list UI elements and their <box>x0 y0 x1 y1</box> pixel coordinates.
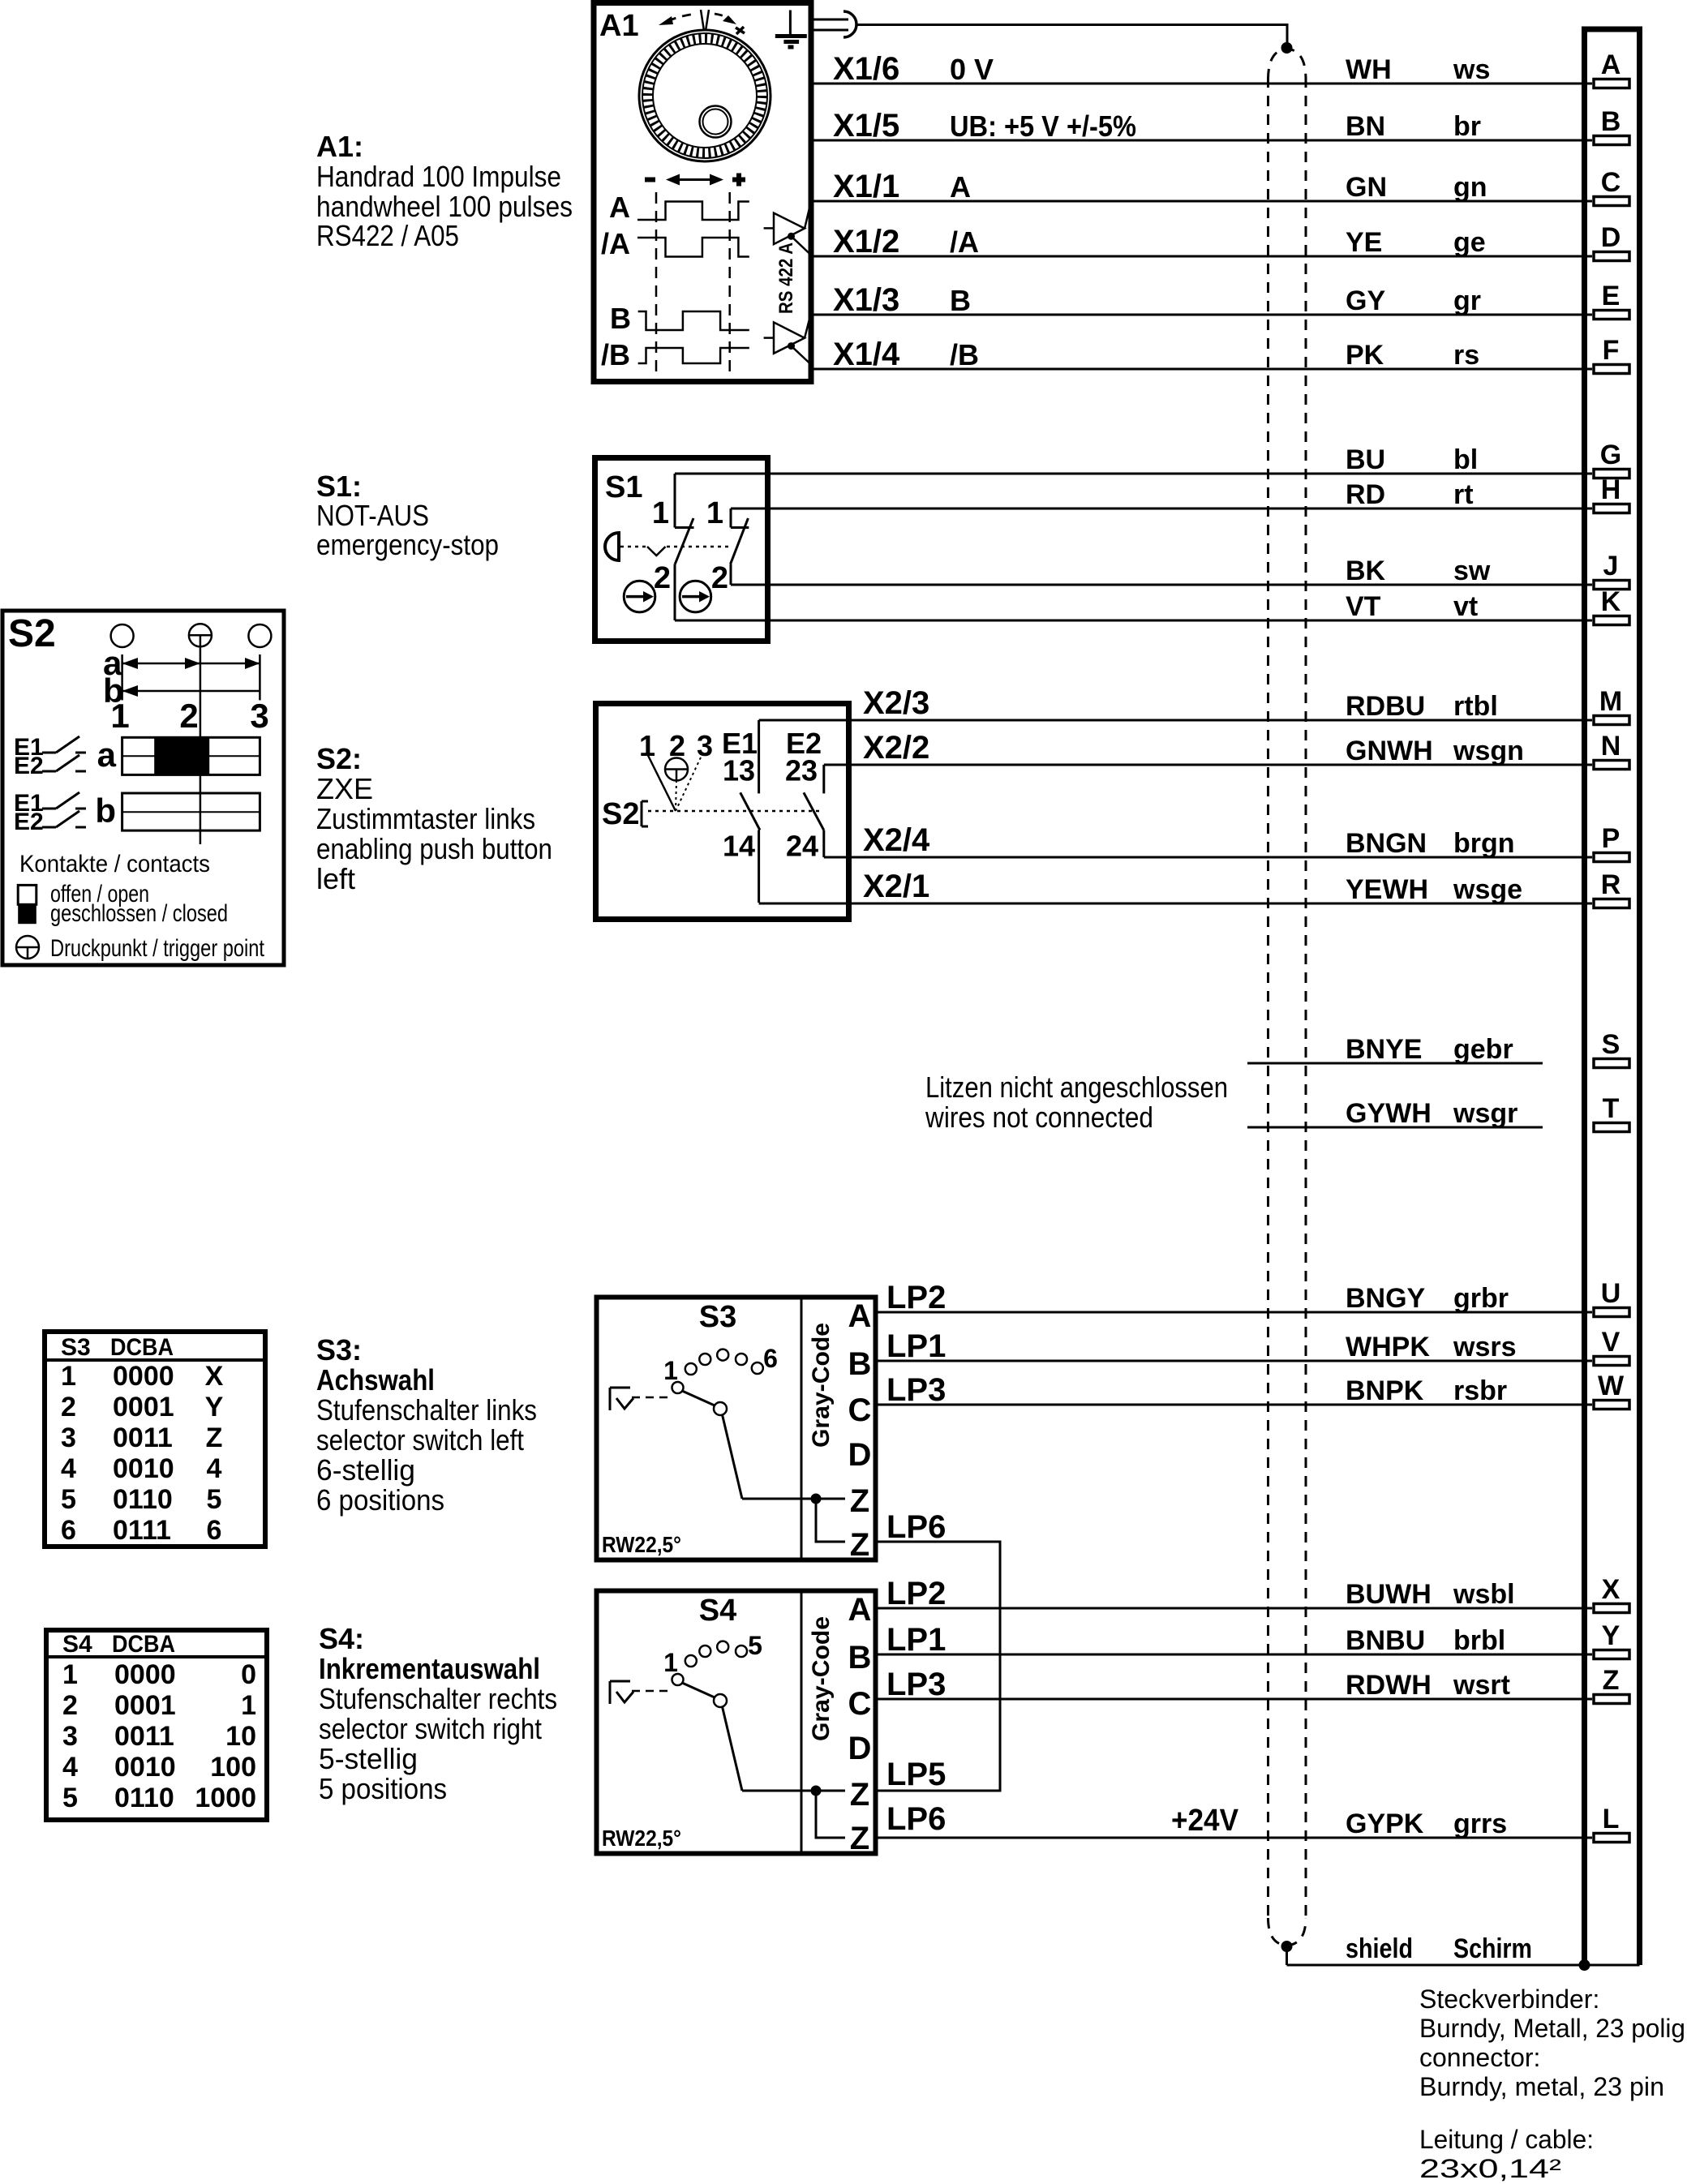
svg-text:Gray-Code: Gray-Code <box>808 1616 835 1741</box>
svg-text:Burndy, Metall, 23 polig: Burndy, Metall, 23 polig <box>1419 2014 1685 2043</box>
wire S1 to pin J (BK) <box>731 556 1592 586</box>
S3 Z common wire <box>742 1498 845 1500</box>
wire S1 to pin K (VT) <box>675 591 1592 622</box>
svg-text:RD: RD <box>1346 479 1385 510</box>
svg-text:left: left <box>316 862 355 895</box>
S4 position circles <box>672 1641 748 1685</box>
S1 description <box>316 470 499 561</box>
svg-text:1: 1 <box>663 1356 678 1385</box>
connector pin C <box>1594 167 1629 206</box>
connector pin K <box>1594 586 1629 625</box>
svg-text:1: 1 <box>61 1361 76 1392</box>
svg-text:L: L <box>1603 1804 1620 1834</box>
svg-text:J: J <box>1603 551 1619 581</box>
svg-text:/A: /A <box>601 227 630 260</box>
svg-text:grbr: grbr <box>1453 1283 1509 1314</box>
svg-text:BN: BN <box>1346 111 1385 142</box>
svg-text:T: T <box>1603 1093 1620 1124</box>
svg-text:rsbr: rsbr <box>1453 1375 1507 1406</box>
svg-text:S4: S4 <box>699 1594 736 1628</box>
svg-text:14: 14 <box>723 830 755 863</box>
wire S4 LP2 to pin X (BUWH) <box>878 1576 1592 1611</box>
connector pin T <box>1594 1093 1629 1132</box>
svg-text:Inkrementauswahl: Inkrementauswahl <box>319 1652 540 1685</box>
svg-text:ws: ws <box>1453 54 1490 85</box>
svg-text:1: 1 <box>652 496 669 530</box>
svg-text:C: C <box>848 1392 872 1428</box>
svg-text:Z: Z <box>850 1821 869 1856</box>
rotation direction arrows <box>659 14 745 34</box>
svg-text:S: S <box>1602 1029 1620 1060</box>
wire S1 to pin H (RD) <box>731 479 1592 510</box>
connector pin B <box>1594 106 1629 145</box>
connector pin L <box>1594 1804 1629 1843</box>
svg-text:G: G <box>1600 440 1621 470</box>
S2 trigger point symbol <box>665 758 688 781</box>
svg-text:6: 6 <box>207 1515 222 1546</box>
connector note <box>1419 1984 1685 2101</box>
svg-text:DCBA: DCBA <box>110 1334 174 1361</box>
unconnected wire T (GYWH) <box>1247 1098 1543 1129</box>
svg-text:selector switch right: selector switch right <box>319 1712 542 1745</box>
selector switch S4 box <box>597 1591 876 1854</box>
wire X1 X1/6 to pin A (WH) <box>813 51 1592 87</box>
shield wire to connector shell <box>1287 1933 1640 1965</box>
S4 rotor <box>682 1683 742 1791</box>
svg-text:LP3: LP3 <box>886 1667 946 1702</box>
svg-text:3: 3 <box>62 1721 78 1752</box>
S3 rotor <box>682 1391 742 1499</box>
svg-text:Leitung / cable:: Leitung / cable: <box>1419 2125 1594 2154</box>
svg-text:0011: 0011 <box>114 1721 174 1752</box>
handwheel pointer <box>701 10 709 31</box>
connector pin M <box>1594 686 1629 725</box>
svg-text:enabling push button: enabling push button <box>316 832 552 865</box>
svg-text:4: 4 <box>61 1453 76 1484</box>
wire S3 LP2 to pin U (BNGY) <box>878 1280 1592 1315</box>
svg-text:sw: sw <box>1453 556 1491 586</box>
svg-text:Achswahl: Achswahl <box>316 1363 435 1397</box>
svg-text:PK: PK <box>1346 340 1384 371</box>
svg-text:YE: YE <box>1346 227 1382 258</box>
connector pin S <box>1594 1029 1629 1068</box>
svg-text:+24V: +24V <box>1171 1804 1239 1838</box>
S4 terminal letters <box>848 1592 872 1856</box>
wire S2 X2/3 to pin M (RDBU) <box>759 685 1592 722</box>
svg-text:wsgn: wsgn <box>1453 736 1524 766</box>
svg-text:rs: rs <box>1453 340 1479 371</box>
svg-text:D: D <box>1601 222 1621 253</box>
waveform B trace <box>638 311 749 330</box>
svg-text:H: H <box>1601 474 1621 505</box>
S4 description <box>319 1622 557 1805</box>
legend E1/E2 contact symbols row a <box>14 734 86 779</box>
svg-text:wsgr: wsgr <box>1453 1098 1517 1129</box>
svg-text:GNWH: GNWH <box>1346 736 1433 766</box>
svg-text:brbl: brbl <box>1453 1625 1505 1656</box>
svg-text:Z: Z <box>850 1777 869 1813</box>
wire S1 to pin G (BU) <box>675 444 1592 475</box>
svg-text:0000: 0000 <box>114 1659 176 1690</box>
svg-text:0010: 0010 <box>113 1453 174 1484</box>
connector pin Z <box>1594 1665 1629 1704</box>
connector pin E <box>1594 281 1629 320</box>
svg-text:X1/1: X1/1 <box>833 169 899 204</box>
svg-text:D: D <box>848 1731 872 1766</box>
svg-text:A1:: A1: <box>316 130 363 163</box>
cable shield termination symbol <box>813 11 856 37</box>
handwheel dial <box>639 30 771 161</box>
cable screen dashed boundary <box>1268 49 1307 1946</box>
svg-text:rtbl: rtbl <box>1453 691 1498 722</box>
svg-text:D: D <box>848 1437 872 1473</box>
svg-text:RS422 / A05: RS422 / A05 <box>316 219 459 252</box>
svg-text:GN: GN <box>1346 172 1387 203</box>
svg-text:0110: 0110 <box>113 1484 173 1515</box>
svg-text:LP5: LP5 <box>886 1757 946 1792</box>
svg-text:0001: 0001 <box>114 1690 176 1721</box>
handwheel module A1 box <box>594 3 811 382</box>
connector pin U <box>1594 1278 1629 1317</box>
svg-text:DCBA: DCBA <box>112 1631 175 1658</box>
svg-text:3: 3 <box>61 1422 76 1453</box>
svg-text:BNGY: BNGY <box>1346 1283 1426 1314</box>
svg-text:5: 5 <box>62 1783 78 1813</box>
S3 Z2 branch <box>816 1499 845 1542</box>
svg-text:Z: Z <box>206 1422 223 1453</box>
svg-text:LP3: LP3 <box>886 1372 946 1408</box>
svg-text:RDWH: RDWH <box>1346 1670 1432 1701</box>
svg-text:1: 1 <box>639 729 655 762</box>
legend trigger point symbol <box>16 936 39 959</box>
S2 position pointer lines <box>639 729 713 811</box>
wires-not-connected note <box>925 1071 1228 1134</box>
svg-text:BNGN: BNGN <box>1346 828 1427 859</box>
svg-text:Z: Z <box>850 1483 869 1519</box>
svg-text:geschlossen / closed: geschlossen / closed <box>50 900 228 927</box>
RS422 driver U1a <box>764 201 811 255</box>
svg-text:A: A <box>950 170 971 204</box>
svg-text:connector:: connector: <box>1419 2043 1540 2072</box>
svg-text:23x0,14²: 23x0,14² <box>1419 2154 1561 2183</box>
legend open square <box>18 885 36 904</box>
legend E1/E2 contact symbols row b <box>14 790 86 835</box>
svg-text:Druckpunkt / trigger point: Druckpunkt / trigger point <box>50 935 265 962</box>
S1 plunger symbol left <box>624 581 655 612</box>
S1 mushroom actuator <box>605 533 619 560</box>
connector pin H <box>1594 474 1629 513</box>
svg-text:1: 1 <box>110 697 129 735</box>
svg-text:bl: bl <box>1453 444 1478 475</box>
svg-text:10: 10 <box>225 1721 256 1752</box>
connector Burndy 23-pin body <box>1582 27 1642 1965</box>
svg-text:brgn: brgn <box>1453 828 1515 859</box>
wire S3 LP3 to pin W (BNPK) <box>878 1372 1592 1408</box>
svg-text:S3:: S3: <box>316 1333 362 1367</box>
RS422 driver U1b <box>764 313 811 365</box>
svg-text:S2:: S2: <box>316 742 362 775</box>
svg-text:X1/3: X1/3 <box>833 282 899 318</box>
svg-text:X1/2: X1/2 <box>833 224 899 260</box>
svg-text:U: U <box>1601 1278 1621 1309</box>
svg-text:S3: S3 <box>699 1300 736 1334</box>
svg-text:YEWH: YEWH <box>1346 874 1428 905</box>
svg-text:b: b <box>95 792 116 830</box>
handwheel knob <box>700 106 732 138</box>
svg-text:shield: shield <box>1346 1933 1413 1964</box>
A1 description <box>316 130 573 252</box>
svg-text:emergency-stop: emergency-stop <box>316 528 499 561</box>
connector pin A <box>1594 49 1629 88</box>
unconnected wire S (BNYE) <box>1247 1034 1543 1065</box>
S4 actuator symbol <box>610 1681 672 1704</box>
svg-text:B: B <box>1601 106 1621 137</box>
svg-text:A: A <box>609 191 630 224</box>
svg-text:A1: A1 <box>599 9 639 43</box>
wire S4 LP6 (+24V) to pin L <box>878 1801 1592 1839</box>
svg-text:WHPK: WHPK <box>1346 1332 1430 1362</box>
svg-text:wsbl: wsbl <box>1453 1579 1515 1610</box>
S4 Z2 branch <box>816 1791 845 1838</box>
svg-text:S4: S4 <box>62 1631 92 1658</box>
svg-text:1: 1 <box>706 496 723 530</box>
svg-text:1000: 1000 <box>195 1783 256 1813</box>
connector pin W <box>1594 1371 1629 1410</box>
svg-text:gr: gr <box>1453 285 1481 316</box>
svg-text:0001: 0001 <box>113 1392 174 1422</box>
waveform /B trace <box>638 348 749 363</box>
svg-text:1: 1 <box>663 1648 678 1677</box>
svg-text:handwheel 100 pulses: handwheel 100 pulses <box>316 190 573 223</box>
svg-text:RW22,5°: RW22,5° <box>602 1532 681 1557</box>
legend travel diagram <box>103 644 269 844</box>
svg-text:Schirm: Schirm <box>1453 1933 1532 1964</box>
svg-text:LP6: LP6 <box>886 1801 946 1837</box>
svg-text:S1:: S1: <box>316 470 362 503</box>
svg-text:RDBU: RDBU <box>1346 691 1425 722</box>
svg-text:/B: /B <box>601 338 630 371</box>
svg-text:0 V: 0 V <box>950 53 994 86</box>
svg-text:LP1: LP1 <box>886 1328 946 1364</box>
svg-text:1: 1 <box>241 1690 256 1721</box>
svg-text:S2: S2 <box>8 612 56 655</box>
svg-text:LP2: LP2 <box>886 1576 946 1611</box>
legend button positions <box>111 624 272 647</box>
svg-text:5-stellig: 5-stellig <box>319 1742 418 1775</box>
svg-text:M: M <box>1599 686 1622 717</box>
S1 contact 1-2 left (NC) <box>652 474 694 620</box>
legend closed square <box>18 904 36 924</box>
S3 Z junction <box>811 1494 821 1504</box>
svg-text:wsrt: wsrt <box>1453 1670 1510 1701</box>
svg-text:E2: E2 <box>14 809 44 835</box>
svg-text:LP2: LP2 <box>886 1280 946 1315</box>
svg-text:X1/5: X1/5 <box>833 108 899 144</box>
svg-text:gn: gn <box>1453 172 1487 203</box>
legend contact table b <box>95 792 260 830</box>
svg-text:a: a <box>97 736 117 774</box>
S4 gray-code column divider <box>801 1591 803 1854</box>
svg-text:X2/4: X2/4 <box>863 822 930 858</box>
svg-text:Burndy, metal, 23 pin: Burndy, metal, 23 pin <box>1419 2072 1664 2101</box>
S3 gray-code column divider <box>801 1298 803 1560</box>
svg-text:BU: BU <box>1346 444 1385 475</box>
svg-text:4: 4 <box>207 1453 222 1484</box>
svg-text:W: W <box>1598 1371 1625 1401</box>
svg-text:2: 2 <box>654 561 671 595</box>
connector pin P <box>1594 823 1629 862</box>
wire S4 LP3 to pin Z (RDWH) <box>878 1667 1592 1702</box>
connector pin Y <box>1594 1620 1629 1659</box>
chassis ground symbol <box>775 11 807 48</box>
svg-text:Y: Y <box>1602 1620 1620 1651</box>
svg-text:BUWH: BUWH <box>1346 1579 1432 1610</box>
svg-text:Steckverbinder:: Steckverbinder: <box>1419 1984 1599 2014</box>
svg-text:RS 422 A: RS 422 A <box>775 242 797 314</box>
svg-text:5: 5 <box>61 1484 76 1515</box>
svg-text:N: N <box>1601 731 1621 762</box>
svg-text:A: A <box>848 1298 872 1334</box>
legend contact table a <box>97 736 260 774</box>
svg-text:Zustimmtaster links: Zustimmtaster links <box>316 802 535 835</box>
wire X1 X1/2 to pin D (YE) <box>813 224 1592 260</box>
svg-text:GY: GY <box>1346 285 1385 316</box>
svg-text:0011: 0011 <box>113 1422 173 1453</box>
svg-text:13: 13 <box>723 754 755 787</box>
svg-text:6-stellig: 6-stellig <box>316 1453 415 1487</box>
svg-text:Stufenschalter rechts: Stufenschalter rechts <box>319 1682 557 1715</box>
svg-text:E2: E2 <box>14 753 44 779</box>
S2 actuator label <box>602 797 648 831</box>
svg-text:3: 3 <box>697 729 713 762</box>
S1 actuator linkage (dotted) <box>620 547 728 556</box>
svg-text:X1/4: X1/4 <box>833 337 900 372</box>
S4 Z junction <box>811 1786 821 1796</box>
svg-text:selector switch left: selector switch left <box>316 1423 524 1457</box>
svg-text:gebr: gebr <box>1453 1034 1513 1065</box>
emergency stop S1 box <box>595 458 768 641</box>
svg-text:4: 4 <box>62 1752 78 1783</box>
S2 description <box>316 742 552 895</box>
svg-text:2: 2 <box>62 1690 78 1721</box>
svg-text:S2: S2 <box>602 797 639 831</box>
svg-text:RW22,5°: RW22,5° <box>602 1826 681 1851</box>
wire X1 X1/1 to pin C (GN) <box>813 169 1592 204</box>
svg-text:/A: /A <box>950 225 979 259</box>
svg-text:100: 100 <box>210 1752 256 1783</box>
wire from shield to cable screen <box>857 25 1287 47</box>
svg-text:P: P <box>1602 823 1620 854</box>
svg-text:B: B <box>848 1346 872 1382</box>
waveform dashed cursor lines <box>656 192 730 374</box>
svg-text:GYPK: GYPK <box>1346 1809 1424 1839</box>
svg-text:A: A <box>1601 49 1621 80</box>
S2 actuator dotted link <box>648 810 822 813</box>
svg-text:0111: 0111 <box>113 1515 171 1546</box>
svg-text:5: 5 <box>748 1631 762 1660</box>
svg-text:vt: vt <box>1453 591 1478 622</box>
wire S3 LP6 to S4 LP5 <box>878 1509 1000 1792</box>
svg-text:LP6: LP6 <box>886 1509 946 1545</box>
svg-text:GYWH: GYWH <box>1346 1098 1432 1129</box>
screen junction node bottom <box>1281 1942 1292 1952</box>
svg-text:Handrad 100 Impulse: Handrad 100 Impulse <box>316 160 561 193</box>
S4 Z common wire <box>742 1790 845 1792</box>
svg-text:V: V <box>1602 1327 1620 1358</box>
svg-text:B: B <box>848 1640 872 1676</box>
connector pin X <box>1594 1574 1629 1613</box>
svg-text:Kontakte / contacts: Kontakte / contacts <box>19 851 210 877</box>
wire S2 X2/4 to pin P (BNGN) <box>824 822 1592 859</box>
svg-text:ge: ge <box>1453 227 1486 258</box>
S1 contact 1-2 right (NC) <box>706 496 749 595</box>
svg-text:1: 1 <box>62 1659 78 1690</box>
svg-text:Gray-Code: Gray-Code <box>808 1323 835 1448</box>
S3 terminal letters <box>848 1298 872 1563</box>
svg-text:BNYE: BNYE <box>1346 1034 1422 1065</box>
enabling button S2 box <box>596 704 849 920</box>
svg-text:LP1: LP1 <box>886 1622 946 1658</box>
svg-text:5: 5 <box>207 1484 222 1515</box>
svg-text:BNBU: BNBU <box>1346 1625 1425 1656</box>
svg-text:ZXE: ZXE <box>316 772 373 805</box>
svg-text:24: 24 <box>786 830 818 863</box>
svg-text:VT: VT <box>1346 591 1381 622</box>
svg-text:F: F <box>1603 335 1620 366</box>
svg-text:X1/6: X1/6 <box>833 51 899 87</box>
connector pin G <box>1594 440 1629 478</box>
svg-text:R: R <box>1601 869 1621 900</box>
svg-text:0110: 0110 <box>114 1783 174 1813</box>
svg-text:2: 2 <box>61 1392 76 1422</box>
legend open/closed text <box>50 881 228 927</box>
S3 description <box>316 1333 537 1517</box>
svg-text:3: 3 <box>250 697 268 735</box>
svg-text:X: X <box>1602 1574 1620 1605</box>
connector pin R <box>1594 869 1629 908</box>
svg-text:wires not connected: wires not connected <box>925 1101 1153 1134</box>
S1 plunger symbol right <box>680 581 711 612</box>
svg-text:S3: S3 <box>61 1334 91 1361</box>
svg-text:X2/3: X2/3 <box>863 685 929 721</box>
svg-text:C: C <box>1601 167 1621 198</box>
svg-text:/B: /B <box>950 338 979 371</box>
svg-text:Stufenschalter links: Stufenschalter links <box>316 1393 537 1427</box>
svg-text:2: 2 <box>179 697 198 735</box>
cable note <box>1419 2125 1594 2183</box>
svg-text:S4:: S4: <box>319 1622 364 1655</box>
svg-text:rt: rt <box>1453 479 1474 510</box>
S2 contact E1 13-14 <box>722 720 760 903</box>
svg-text:0000: 0000 <box>113 1361 174 1392</box>
wire S2 X2/1 to pin R (YEWH) <box>759 869 1592 905</box>
S3 position circles <box>672 1349 763 1393</box>
wire X1 X1/5 to pin B (BN) <box>813 108 1592 144</box>
S3 actuator symbol <box>610 1388 672 1410</box>
svg-text:Z: Z <box>850 1527 869 1563</box>
shield junction at connector <box>1579 1960 1590 1971</box>
svg-text:Y: Y <box>205 1392 224 1422</box>
connector pin D <box>1594 222 1629 261</box>
svg-text:6: 6 <box>61 1515 76 1546</box>
svg-text:X: X <box>205 1361 224 1392</box>
svg-text:23: 23 <box>785 754 818 787</box>
svg-text:WH: WH <box>1346 54 1392 85</box>
svg-text:5 positions: 5 positions <box>319 1772 447 1805</box>
selector switch S3 box <box>597 1298 876 1560</box>
svg-text:NOT-AUS: NOT-AUS <box>316 499 429 532</box>
S4 code table <box>46 1630 267 1820</box>
